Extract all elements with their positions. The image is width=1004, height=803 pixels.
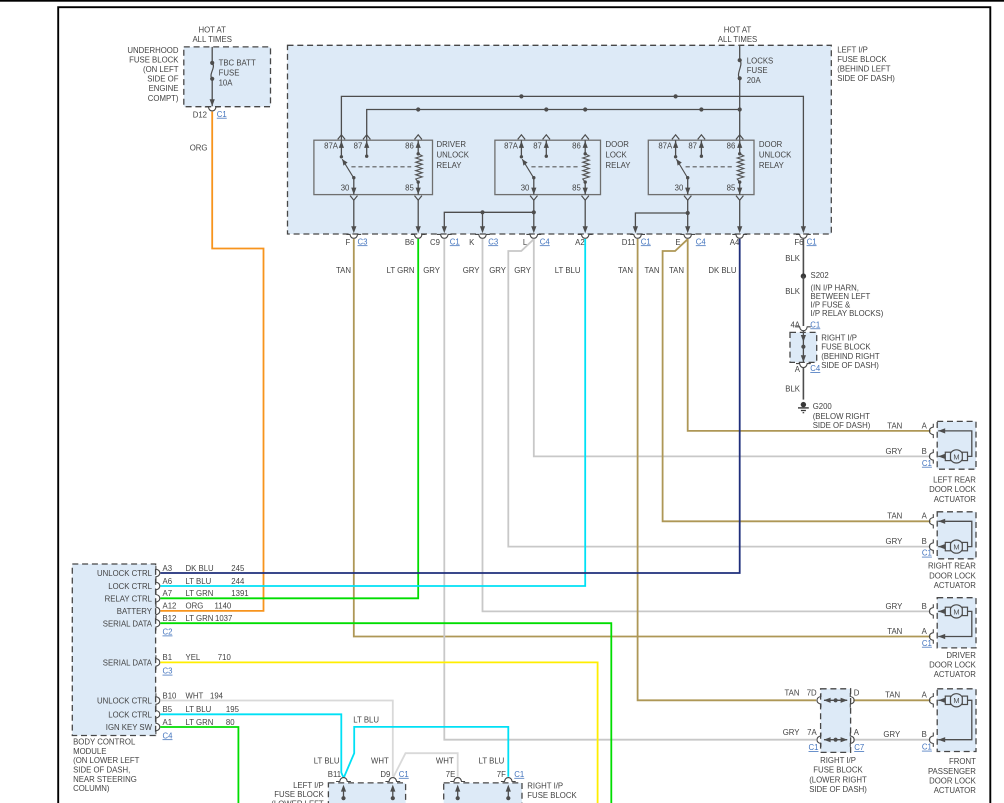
svg-text:SERIAL DATA: SERIAL DATA xyxy=(103,659,153,668)
junction dot bus1 / relay K3 87A xyxy=(674,94,678,98)
wire TAN right I/P block D to front passenger actuator A xyxy=(853,699,930,701)
BCM pin A1 (IGN KEY SW) xyxy=(156,720,160,734)
svg-text:85: 85 xyxy=(727,183,736,192)
pin C9 connector at left I/P fuse block bottom xyxy=(437,234,452,238)
svg-text:A2: A2 xyxy=(575,238,585,247)
wire LT GRN pin B6 to BCM A7 xyxy=(160,239,418,598)
svg-text:B: B xyxy=(922,730,927,739)
svg-text:DK BLU: DK BLU xyxy=(186,564,215,573)
pin F6 connector at left I/P fuse block bottom xyxy=(796,234,811,238)
relay K3 door unlock relay dashed actuation link xyxy=(686,166,733,168)
svg-text:WHT: WHT xyxy=(186,691,204,700)
relay K1 driver unlock relay switch arm xyxy=(342,159,353,177)
driver door lock actuator pin B connector xyxy=(929,604,933,618)
relay K1 driver unlock relay pin 85 xyxy=(417,182,419,195)
svg-text:COLUMN): COLUMN) xyxy=(73,784,110,793)
left I/P fuse block (big dashed box) xyxy=(288,45,832,234)
svg-text:7A: 7A xyxy=(807,728,817,737)
svg-text:M: M xyxy=(953,607,959,616)
svg-text:B12: B12 xyxy=(163,614,177,623)
svg-text:ORG: ORG xyxy=(186,602,204,611)
right rear door lock actuator pin B connector xyxy=(929,539,933,553)
svg-text:MODULE: MODULE xyxy=(73,747,106,756)
svg-text:TBC BATT: TBC BATT xyxy=(219,58,256,67)
branch wire to pin D11 xyxy=(635,213,687,227)
relay K2 door lock relay coil xyxy=(583,154,589,182)
left rear door lock actuator motor M xyxy=(950,450,963,463)
branch wire to pins C9 and K xyxy=(444,212,534,227)
wire LT BLU BCM B5 to B11 xyxy=(160,714,343,777)
svg-text:RELAY: RELAY xyxy=(759,161,785,170)
wire relay K1 85 to pin B6 xyxy=(417,200,419,228)
wire relay K3 85 to pin A4 xyxy=(739,200,741,228)
svg-text:FUSE BLOCK: FUSE BLOCK xyxy=(129,56,179,65)
body control module (dashed box) xyxy=(72,564,155,736)
svg-text:85: 85 xyxy=(572,183,581,192)
svg-text:UNLOCK CTRL: UNLOCK CTRL xyxy=(97,697,153,706)
svg-text:7E: 7E xyxy=(446,770,456,779)
svg-text:NEAR STEERING: NEAR STEERING xyxy=(73,775,137,784)
relay K1 driver unlock relay coil xyxy=(416,154,422,182)
svg-text:FUSE: FUSE xyxy=(219,68,240,77)
svg-text:LEFT REAR: LEFT REAR xyxy=(933,476,976,485)
svg-text:LOCK: LOCK xyxy=(606,151,628,160)
BCM pin A3 (UNLOCK CTRL) xyxy=(156,566,160,580)
svg-text:LEFT I/P: LEFT I/P xyxy=(293,781,324,790)
svg-text:FRONT: FRONT xyxy=(949,757,976,766)
svg-text:TAN: TAN xyxy=(336,266,351,275)
svg-text:A1: A1 xyxy=(163,718,173,727)
svg-text:D11: D11 xyxy=(622,238,636,247)
junction dot bus2 / relay K2 86 xyxy=(583,107,587,111)
BCM pin B1 (SERIAL DATA) xyxy=(156,655,160,669)
svg-text:A: A xyxy=(922,512,928,521)
svg-text:ACTUATOR: ACTUATOR xyxy=(934,495,977,504)
svg-text:A12: A12 xyxy=(163,602,177,611)
svg-text:SIDE OF DASH): SIDE OF DASH) xyxy=(821,361,879,370)
svg-text:C7: C7 xyxy=(854,743,864,752)
relay K2 door lock relay pin 85 xyxy=(584,182,586,195)
svg-text:1391: 1391 xyxy=(231,589,248,598)
svg-text:(BEHIND RIGHT: (BEHIND RIGHT xyxy=(821,352,880,361)
svg-text:GRY: GRY xyxy=(886,537,904,546)
svg-text:ENGINE: ENGINE xyxy=(149,84,179,93)
fuse LOCKS FUSE 20A xyxy=(739,45,741,60)
relay K1 driver unlock relay dashed actuation link xyxy=(351,166,411,168)
wire TAN pin D11 to right I/P fuse block 7D xyxy=(638,239,817,700)
relay K1 driver unlock relay pin 86 xyxy=(417,140,419,154)
svg-text:ALL TIMES: ALL TIMES xyxy=(718,35,757,44)
relay K3 door unlock relay pin 86 xyxy=(739,140,741,154)
svg-text:20A: 20A xyxy=(747,76,762,85)
svg-text:A6: A6 xyxy=(163,577,173,586)
front passenger door lock actuator internal wire to motor xyxy=(938,699,945,701)
svg-text:(BELOW RIGHT: (BELOW RIGHT xyxy=(813,412,870,421)
svg-text:86: 86 xyxy=(727,141,736,150)
splice S202 xyxy=(801,273,806,278)
svg-text:FUSE BLOCK: FUSE BLOCK xyxy=(813,766,863,775)
junction dot at relay K2 30 branch xyxy=(532,210,536,214)
pin D11 connector at left I/P fuse block bottom xyxy=(630,234,645,238)
svg-text:30: 30 xyxy=(341,183,350,192)
svg-text:SIDE OF DASH): SIDE OF DASH) xyxy=(813,421,871,430)
svg-text:FUSE BLOCK: FUSE BLOCK xyxy=(527,791,577,800)
svg-text:A: A xyxy=(854,728,860,737)
pin F connector at left I/P fuse block bottom xyxy=(346,234,361,238)
wire relay K2 30 to pin L with branch xyxy=(533,200,535,228)
svg-text:HOT AT: HOT AT xyxy=(198,25,226,34)
svg-text:UNLOCK: UNLOCK xyxy=(437,151,470,160)
svg-text:C4: C4 xyxy=(540,237,551,246)
wire BLK S202 to connector 4A/C1 xyxy=(802,276,804,326)
left rear door lock actuator pin B connector xyxy=(929,449,933,463)
svg-text:C1: C1 xyxy=(922,459,932,468)
wire relay K3 30 to pin E with branch xyxy=(687,200,689,228)
svg-text:4A: 4A xyxy=(790,320,800,329)
svg-text:RIGHT I/P: RIGHT I/P xyxy=(820,756,856,765)
wire GRY pin K to driver door lock actuator B xyxy=(483,239,931,612)
relay K1 driver unlock relay pin 87A xyxy=(340,140,342,157)
svg-text:C4: C4 xyxy=(163,731,174,740)
BCM pin B12 (SERIAL DATA) xyxy=(156,616,160,630)
svg-text:85: 85 xyxy=(405,183,414,192)
svg-text:RIGHT I/P: RIGHT I/P xyxy=(527,782,563,791)
svg-text:TAN: TAN xyxy=(885,691,900,700)
svg-text:30: 30 xyxy=(675,183,684,192)
svg-text:ALL TIMES: ALL TIMES xyxy=(192,35,231,44)
svg-text:LT GRN: LT GRN xyxy=(186,718,214,727)
svg-text:C1: C1 xyxy=(399,770,409,779)
svg-text:C1: C1 xyxy=(922,639,932,648)
svg-text:C1: C1 xyxy=(450,237,460,246)
svg-text:DOOR: DOOR xyxy=(759,140,783,149)
svg-text:SERIAL DATA: SERIAL DATA xyxy=(103,619,153,628)
svg-text:BLK: BLK xyxy=(785,385,801,394)
wire LT GRN BCM A1 ignition key switch xyxy=(160,727,238,803)
svg-text:GRY: GRY xyxy=(423,266,441,275)
svg-text:LT BLU: LT BLU xyxy=(186,577,212,586)
wire LT GRN BCM B12 serial data xyxy=(160,623,611,803)
relay K3 door unlock relay pin 87 xyxy=(700,140,702,156)
svg-text:C3: C3 xyxy=(488,237,498,246)
svg-text:FUSE: FUSE xyxy=(747,66,768,75)
junction dot bus2 / locks fuse feed xyxy=(738,107,742,111)
svg-text:B6: B6 xyxy=(405,238,415,247)
right rear door lock actuator (dashed box) xyxy=(937,512,976,559)
svg-text:87A: 87A xyxy=(658,141,673,150)
relay K2 door lock relay pin 86 xyxy=(584,140,586,154)
svg-text:LT GRN: LT GRN xyxy=(186,614,214,623)
svg-text:C1: C1 xyxy=(514,770,524,779)
pin K connector at left I/P fuse block bottom xyxy=(475,234,490,238)
svg-text:A: A xyxy=(795,365,801,374)
top horizontal rule xyxy=(0,0,1004,2)
right rear door lock actuator motor M xyxy=(950,540,963,553)
svg-text:C1: C1 xyxy=(922,549,932,558)
pin L connector at left I/P fuse block bottom xyxy=(526,234,541,238)
svg-text:G200: G200 xyxy=(813,402,833,411)
connector 4A / C1 xyxy=(796,327,811,331)
svg-text:A: A xyxy=(922,627,928,636)
svg-text:LT GRN: LT GRN xyxy=(186,589,214,598)
svg-text:F6: F6 xyxy=(794,238,803,247)
svg-text:WHT: WHT xyxy=(436,757,454,766)
front passenger door lock actuator pin B connector xyxy=(929,733,933,747)
svg-text:(ON LEFT: (ON LEFT xyxy=(143,65,179,74)
wire YEL BCM B1 serial data xyxy=(160,662,597,803)
svg-text:1037: 1037 xyxy=(215,614,232,623)
svg-text:SIDE OF: SIDE OF xyxy=(147,75,178,84)
svg-text:LT BLU: LT BLU xyxy=(555,266,581,275)
svg-text:UNLOCK CTRL: UNLOCK CTRL xyxy=(97,569,153,578)
svg-text:ACTUATOR: ACTUATOR xyxy=(934,581,977,590)
BCM pin B10 (UNLOCK CTRL) xyxy=(156,693,160,707)
svg-text:HOT AT: HOT AT xyxy=(724,25,752,34)
BCM pin A7 (RELAY CTRL) xyxy=(156,591,160,605)
wire LT BLU jumper B11 to 7F xyxy=(344,727,509,778)
svg-text:C2: C2 xyxy=(163,628,173,637)
svg-text:LT BLU: LT BLU xyxy=(314,757,340,766)
svg-text:7D: 7D xyxy=(807,689,817,698)
relay K1 driver unlock relay pin 87 xyxy=(366,140,368,156)
wire relay K2 85 to pin A2 xyxy=(584,200,586,228)
svg-text:GRY: GRY xyxy=(883,730,901,739)
svg-text:DOOR LOCK: DOOR LOCK xyxy=(929,485,977,494)
driver door lock actuator pin A connector xyxy=(929,629,933,643)
right rear door lock actuator internal wire to motor xyxy=(938,546,945,548)
svg-text:S202: S202 xyxy=(811,271,829,280)
relay K1 driver unlock relay box xyxy=(314,140,433,194)
svg-text:BLK: BLK xyxy=(785,254,801,263)
svg-text:87A: 87A xyxy=(504,141,519,150)
wire BLK to ground G200 xyxy=(802,368,804,400)
svg-text:C3: C3 xyxy=(163,667,173,676)
svg-text:DRIVER: DRIVER xyxy=(946,651,976,660)
svg-text:LT BLU: LT BLU xyxy=(353,716,379,725)
wire bus1 down to pin F6 xyxy=(801,226,806,233)
svg-text:FUSE BLOCK: FUSE BLOCK xyxy=(837,55,887,64)
svg-text:LOCK CTRL: LOCK CTRL xyxy=(108,711,152,720)
svg-text:B5: B5 xyxy=(163,705,173,714)
svg-text:TAN: TAN xyxy=(887,421,902,430)
svg-text:GRY: GRY xyxy=(514,266,532,275)
wire GRY pin L to right rear actuator B (jog) xyxy=(508,239,930,546)
relay K2 door lock relay box xyxy=(495,140,601,194)
svg-text:GRY: GRY xyxy=(463,266,481,275)
front passenger door lock actuator pin A connector xyxy=(929,693,933,707)
svg-text:DOOR LOCK: DOOR LOCK xyxy=(929,776,977,785)
junction dot bus2 / relay K1 86 xyxy=(416,107,420,111)
svg-text:A: A xyxy=(922,691,928,700)
svg-text:(LOWER RIGHT: (LOWER RIGHT xyxy=(809,775,867,784)
svg-text:87: 87 xyxy=(688,141,697,150)
fuse TBC BATT FUSE 10A xyxy=(211,47,213,63)
svg-text:C9: C9 xyxy=(430,238,440,247)
svg-text:GRY: GRY xyxy=(886,447,904,456)
svg-text:B11: B11 xyxy=(328,770,341,779)
wire BLK pin F6 to S202 xyxy=(802,239,804,276)
right I/P fuse block (lower right side of dash) dashed box xyxy=(821,689,851,753)
svg-text:244: 244 xyxy=(231,577,245,586)
pin D12 / C1 connector at underhood fuse block xyxy=(205,107,220,111)
wire WHT jumper D9 to 7E xyxy=(393,753,458,777)
wire GRY pin L to left rear actuator B xyxy=(534,239,931,457)
ground G200 xyxy=(801,402,806,407)
svg-text:87A: 87A xyxy=(324,141,339,150)
wire DK BLU pin A4 to BCM A3 xyxy=(160,239,739,573)
pin 7F at lower fuse block xyxy=(501,778,516,782)
relay K2 door lock relay pin 87 xyxy=(545,140,547,156)
svg-text:DK BLU: DK BLU xyxy=(708,266,737,275)
bus wire 86/87 (battery side) xyxy=(367,110,740,141)
svg-text:(ON LOWER LEFT: (ON LOWER LEFT xyxy=(73,756,140,765)
wire relay K1 30 to pin F xyxy=(353,200,355,228)
svg-text:M: M xyxy=(953,696,959,705)
right I/P block pin 7D/D pass-through xyxy=(817,693,821,707)
wire through right I/P fuse block xyxy=(802,331,804,347)
front passenger door lock actuator motor M xyxy=(950,694,963,707)
svg-text:BODY CONTROL: BODY CONTROL xyxy=(73,738,136,747)
svg-text:A7: A7 xyxy=(163,589,173,598)
relay K2 door lock relay pin 87A xyxy=(520,140,522,157)
svg-text:FUSE BLOCK: FUSE BLOCK xyxy=(821,343,871,352)
connector A / C4 xyxy=(796,364,811,368)
svg-text:10A: 10A xyxy=(219,78,234,87)
svg-text:B: B xyxy=(922,602,927,611)
svg-text:ACTUATOR: ACTUATOR xyxy=(934,670,977,679)
svg-text:LOCK CTRL: LOCK CTRL xyxy=(108,582,152,591)
svg-text:C1: C1 xyxy=(807,237,817,246)
relay K3 door unlock relay pin 30 xyxy=(687,178,689,195)
left I/P fuse block (lower left) dashed box xyxy=(328,783,405,803)
svg-text:ACTUATOR: ACTUATOR xyxy=(934,786,977,795)
svg-text:TAN: TAN xyxy=(669,266,684,275)
svg-text:GRY: GRY xyxy=(886,602,904,611)
svg-text:D12: D12 xyxy=(193,111,207,120)
svg-text:7F: 7F xyxy=(497,770,506,779)
svg-text:SIDE OF DASH): SIDE OF DASH) xyxy=(809,785,867,794)
svg-text:LT BLU: LT BLU xyxy=(479,757,505,766)
svg-text:ORG: ORG xyxy=(190,143,208,152)
relay K3 door unlock relay switch arm xyxy=(676,159,687,177)
svg-text:194: 194 xyxy=(210,691,224,700)
left rear door lock actuator (dashed box) xyxy=(937,421,976,469)
wire WHT BCM B10 to D9 xyxy=(160,701,392,777)
wire GRY pin C9 to right I/P fuse block 7A xyxy=(444,239,816,740)
svg-text:A3: A3 xyxy=(163,564,173,573)
bus wire 87A (to F6 ground side) xyxy=(341,96,803,227)
svg-text:C4: C4 xyxy=(696,237,707,246)
driver door lock actuator motor M xyxy=(950,605,963,618)
svg-text:1140: 1140 xyxy=(215,602,232,611)
wire ORG from underhood fuse to BCM A12 xyxy=(160,112,263,611)
svg-text:DOOR LOCK: DOOR LOCK xyxy=(929,571,977,580)
svg-text:C1: C1 xyxy=(217,110,227,119)
relay K1 driver unlock relay pin 30 xyxy=(353,178,355,195)
pin A4 connector at left I/P fuse block bottom xyxy=(732,234,747,238)
svg-text:B: B xyxy=(922,447,927,456)
svg-text:B: B xyxy=(922,537,927,546)
svg-text:RELAY: RELAY xyxy=(437,161,463,170)
svg-text:BLK: BLK xyxy=(785,287,801,296)
svg-text:A4: A4 xyxy=(730,238,740,247)
svg-text:GRY: GRY xyxy=(783,728,801,737)
pin B6 connector at left I/P fuse block bottom xyxy=(411,234,426,238)
svg-text:PASSENGER: PASSENGER xyxy=(928,767,976,776)
relay K3 door unlock relay pin 87A xyxy=(675,140,677,157)
pin 7E at lower fuse block xyxy=(450,778,465,782)
svg-text:B1: B1 xyxy=(163,653,173,662)
pin D9 at lower fuse block xyxy=(385,778,400,782)
svg-text:195: 195 xyxy=(226,705,240,714)
BCM pin A6 (LOCK CTRL) xyxy=(156,579,160,593)
svg-text:C1: C1 xyxy=(809,743,819,752)
svg-text:UNLOCK: UNLOCK xyxy=(759,151,792,160)
svg-text:TAN: TAN xyxy=(784,689,799,698)
svg-text:DRIVER: DRIVER xyxy=(437,140,467,149)
svg-text:DOOR LOCK: DOOR LOCK xyxy=(929,660,977,669)
svg-text:RIGHT I/P: RIGHT I/P xyxy=(821,334,857,343)
BCM pin A12 (BATTERY) xyxy=(156,604,160,618)
svg-text:C1: C1 xyxy=(810,320,820,329)
junction dot at relay K3 30 branch xyxy=(686,211,690,215)
svg-text:LT BLU: LT BLU xyxy=(186,705,212,714)
underhood fuse block (dashed box) xyxy=(184,47,271,107)
svg-text:K: K xyxy=(469,238,475,247)
junction dot bus1 / relay K2 87A xyxy=(519,94,523,98)
svg-text:C4: C4 xyxy=(810,364,821,373)
relay K3 door unlock relay coil xyxy=(737,154,743,182)
relay K3 door unlock relay box xyxy=(648,140,754,194)
relay K3 door unlock relay pin 85 xyxy=(739,182,741,195)
pin E connector at left I/P fuse block bottom xyxy=(680,234,695,238)
svg-text:I/P RELAY BLOCKS): I/P RELAY BLOCKS) xyxy=(811,309,884,318)
svg-text:30: 30 xyxy=(521,183,530,192)
svg-text:TAN: TAN xyxy=(887,512,902,521)
relay K2 door lock relay dashed actuation link xyxy=(531,166,578,168)
svg-text:FUSE BLOCK: FUSE BLOCK xyxy=(274,790,324,799)
wire TAN pin F to driver door lock actuator A xyxy=(354,239,931,637)
svg-text:TAN: TAN xyxy=(887,627,902,636)
svg-text:C3: C3 xyxy=(358,237,368,246)
svg-text:D9: D9 xyxy=(380,770,390,779)
svg-text:(BEHIND LEFT: (BEHIND LEFT xyxy=(837,64,891,73)
svg-text:C1: C1 xyxy=(922,743,932,752)
junction dot bus2 / relay K2 87 xyxy=(544,107,548,111)
svg-text:TAN: TAN xyxy=(618,266,633,275)
svg-text:C1: C1 xyxy=(641,237,651,246)
svg-text:GRY: GRY xyxy=(489,266,507,275)
svg-text:86: 86 xyxy=(405,141,414,150)
svg-text:87: 87 xyxy=(533,141,542,150)
svg-text:RELAY: RELAY xyxy=(606,161,632,170)
right I/P fuse block (lower right) dashed box xyxy=(444,783,522,803)
svg-text:M: M xyxy=(953,543,959,552)
right I/P fuse block (behind right side of dash) xyxy=(790,332,817,362)
wire GRY right I/P block A to front passenger actuator B xyxy=(853,739,930,741)
wire LT BLU pin A2 to BCM A6 xyxy=(160,239,585,586)
pin A2 connector at left I/P fuse block bottom xyxy=(578,234,593,238)
BCM pin B5 (LOCK CTRL) xyxy=(156,707,160,721)
svg-text:87: 87 xyxy=(354,141,363,150)
relay K2 door lock relay pin 30 xyxy=(533,178,535,195)
svg-text:BATTERY: BATTERY xyxy=(117,607,153,616)
svg-text:YEL: YEL xyxy=(186,653,201,662)
svg-text:RIGHT REAR: RIGHT REAR xyxy=(928,562,976,571)
svg-text:F: F xyxy=(346,238,351,247)
driver door lock actuator (dashed box) xyxy=(937,598,976,648)
front passenger door lock actuator (dashed box) xyxy=(937,689,976,752)
